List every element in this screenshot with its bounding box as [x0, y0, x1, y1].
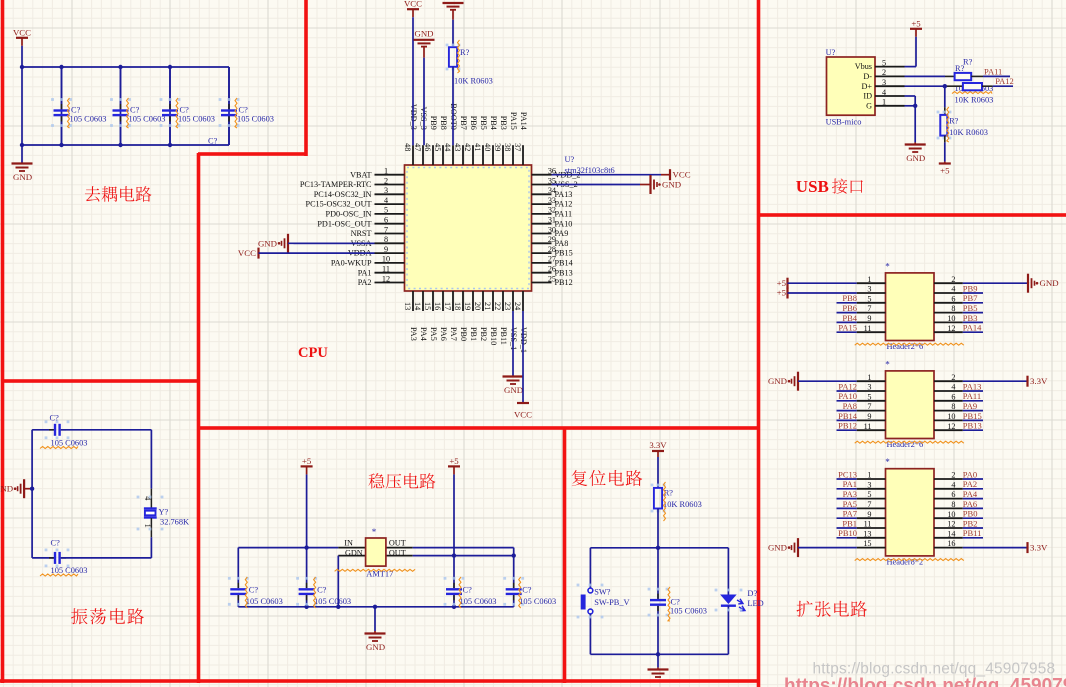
svg-text:C?: C?	[249, 586, 259, 595]
svg-text:10: 10	[947, 314, 955, 323]
svg-text:PC13-TAMPER-RTC: PC13-TAMPER-RTC	[300, 180, 372, 189]
svg-text:OUT: OUT	[389, 538, 406, 547]
svg-text:VCC: VCC	[404, 0, 422, 9]
svg-text:6: 6	[951, 490, 955, 499]
svg-text:9: 9	[867, 412, 871, 421]
svg-text:PA7: PA7	[843, 509, 857, 519]
svg-text:105 C0603: 105 C0603	[178, 115, 215, 124]
svg-text:13: 13	[403, 302, 412, 310]
svg-text:+5: +5	[911, 18, 921, 28]
svg-text:VCC: VCC	[673, 170, 691, 180]
svg-text:10K R0603: 10K R0603	[663, 500, 702, 509]
svg-text:11: 11	[382, 265, 390, 274]
svg-text:105 C0603: 105 C0603	[70, 115, 107, 124]
svg-text:PA8: PA8	[555, 239, 569, 248]
svg-text:GND: GND	[504, 385, 523, 395]
svg-text:C?: C?	[522, 586, 532, 595]
svg-text:PA12: PA12	[555, 200, 573, 209]
svg-text:C?: C?	[671, 598, 681, 607]
svg-text:32.768K: 32.768K	[160, 518, 189, 527]
svg-text:PC13: PC13	[838, 469, 857, 479]
svg-text:C?: C?	[180, 106, 190, 115]
svg-text:C?: C?	[239, 106, 249, 115]
svg-text:3.3V: 3.3V	[1030, 543, 1048, 553]
svg-text:PA4: PA4	[419, 327, 428, 341]
svg-text:PB11: PB11	[963, 528, 982, 538]
svg-text:5: 5	[384, 206, 388, 215]
svg-text:3: 3	[867, 285, 871, 294]
svg-text:PD1-OSC_OUT: PD1-OSC_OUT	[317, 219, 371, 228]
svg-text:C?: C?	[130, 106, 140, 115]
svg-text:2: 2	[951, 471, 955, 480]
svg-text:PB1: PB1	[842, 518, 857, 528]
svg-text:GND: GND	[0, 484, 13, 494]
svg-text:PB4: PB4	[489, 116, 498, 130]
svg-text:105 C0603: 105 C0603	[460, 597, 497, 606]
svg-text:NRST: NRST	[351, 229, 372, 238]
svg-text:16: 16	[433, 302, 442, 310]
svg-text:PA1: PA1	[843, 479, 857, 489]
svg-text:1: 1	[384, 167, 388, 176]
svg-text:PC15-OSC32_OUT: PC15-OSC32_OUT	[306, 200, 372, 209]
svg-text:13: 13	[863, 529, 871, 538]
svg-text:45: 45	[433, 143, 442, 151]
svg-text:5: 5	[882, 58, 886, 67]
svg-text:PB4: PB4	[842, 313, 857, 323]
svg-text:PA1: PA1	[358, 268, 372, 277]
svg-text:GND: GND	[258, 238, 277, 248]
svg-text:44: 44	[443, 143, 452, 151]
svg-text:PB6: PB6	[842, 303, 857, 313]
svg-text:+5: +5	[777, 288, 787, 298]
svg-text:6: 6	[951, 392, 955, 401]
svg-text:1: 1	[867, 373, 871, 382]
svg-text:Y?: Y?	[159, 508, 169, 517]
svg-text:PB3: PB3	[499, 116, 508, 130]
svg-text:IN: IN	[344, 538, 353, 547]
svg-text:D?: D?	[747, 589, 757, 598]
svg-text:11: 11	[864, 422, 872, 431]
svg-text:+5: +5	[449, 456, 459, 466]
svg-text:R?: R?	[460, 48, 470, 57]
svg-text:4: 4	[951, 383, 955, 392]
svg-text:PA11: PA11	[555, 210, 573, 219]
svg-text:11: 11	[864, 324, 872, 333]
svg-text:PA11: PA11	[984, 67, 1002, 77]
svg-text:105 C0603: 105 C0603	[670, 607, 707, 616]
svg-text:PC14-OSC32_IN: PC14-OSC32_IN	[314, 190, 372, 199]
svg-text:C?: C?	[50, 414, 60, 423]
svg-text:SW-PB_V: SW-PB_V	[594, 598, 629, 607]
svg-text:12: 12	[947, 520, 955, 529]
svg-text:3: 3	[384, 186, 388, 195]
svg-text:GND: GND	[768, 376, 787, 386]
svg-text:3: 3	[882, 78, 886, 87]
svg-text:PB12: PB12	[555, 278, 573, 287]
svg-text:10K R0603: 10K R0603	[955, 96, 994, 105]
svg-text:PA12: PA12	[995, 76, 1014, 86]
svg-text:OUT: OUT	[389, 548, 406, 557]
svg-text:PA0-WKUP: PA0-WKUP	[331, 259, 372, 268]
svg-text:PA8: PA8	[843, 401, 857, 411]
svg-text:stm32f103c8t6: stm32f103c8t6	[565, 166, 615, 175]
svg-text:PB9: PB9	[429, 116, 438, 130]
svg-text:PB6: PB6	[469, 116, 478, 130]
svg-text:PB2: PB2	[479, 327, 488, 341]
svg-text:10: 10	[382, 255, 390, 264]
svg-text:VBAT: VBAT	[350, 170, 371, 179]
svg-text:10K R0603: 10K R0603	[949, 128, 988, 137]
svg-text:PB13: PB13	[555, 268, 573, 277]
svg-text:14: 14	[413, 302, 422, 310]
svg-text:PA14: PA14	[963, 323, 982, 333]
svg-text:PB13: PB13	[963, 421, 982, 431]
svg-text:PA9: PA9	[963, 401, 977, 411]
svg-text:10: 10	[947, 510, 955, 519]
svg-text:GND: GND	[13, 172, 32, 182]
svg-text:2: 2	[951, 373, 955, 382]
svg-text:USB-mico: USB-mico	[826, 117, 862, 126]
svg-text:40: 40	[483, 143, 492, 151]
svg-text:3: 3	[867, 480, 871, 489]
svg-text:PB2: PB2	[963, 518, 978, 528]
svg-text:C?: C?	[51, 539, 61, 548]
svg-text:PA0: PA0	[963, 469, 977, 479]
svg-text:105 C0603: 105 C0603	[314, 597, 351, 606]
svg-text:23: 23	[503, 302, 512, 310]
svg-text:+5: +5	[302, 456, 312, 466]
svg-text:USB: USB	[796, 177, 829, 196]
svg-text:PB11: PB11	[499, 327, 508, 345]
svg-text:24: 24	[513, 302, 522, 310]
svg-text:GND: GND	[768, 543, 787, 553]
svg-text:15: 15	[423, 302, 432, 310]
svg-text:PA2: PA2	[963, 479, 977, 489]
svg-text:GDN: GDN	[345, 548, 363, 557]
svg-text:12: 12	[382, 274, 390, 283]
svg-text:18: 18	[453, 302, 462, 310]
svg-text:PB1: PB1	[469, 327, 478, 341]
svg-text:PB15: PB15	[963, 411, 982, 421]
svg-text:9: 9	[867, 314, 871, 323]
svg-text:*: *	[885, 261, 890, 271]
svg-text:VCC: VCC	[514, 410, 532, 420]
svg-text:GND: GND	[1040, 278, 1059, 288]
svg-text:*: *	[372, 527, 377, 537]
svg-text:7: 7	[867, 500, 871, 509]
svg-text:PB0: PB0	[963, 509, 978, 519]
svg-text:PA13: PA13	[963, 381, 982, 391]
svg-text:VCC: VCC	[13, 27, 31, 37]
svg-text:2: 2	[882, 68, 886, 77]
svg-text:PB14: PB14	[555, 259, 573, 268]
svg-text:5: 5	[867, 392, 871, 401]
svg-text:C?: C?	[71, 106, 81, 115]
svg-text:Vbus: Vbus	[855, 62, 872, 71]
svg-text:10K R0603: 10K R0603	[454, 77, 493, 86]
svg-text:105 C0603: 105 C0603	[246, 597, 283, 606]
svg-text:PA11: PA11	[963, 391, 981, 401]
svg-text:PB7: PB7	[459, 116, 468, 130]
svg-text:R?: R?	[963, 58, 973, 67]
svg-text:10: 10	[947, 412, 955, 421]
svg-text:7: 7	[867, 402, 871, 411]
svg-text:PA5: PA5	[429, 327, 438, 341]
svg-text:PA13: PA13	[555, 190, 573, 199]
svg-text:GND: GND	[906, 153, 925, 163]
svg-text:PB0: PB0	[459, 327, 468, 341]
svg-text:1: 1	[882, 98, 886, 107]
svg-text:5: 5	[867, 294, 871, 303]
svg-text:4: 4	[951, 480, 955, 489]
svg-text:PB12: PB12	[838, 421, 857, 431]
svg-text:SW?: SW?	[594, 588, 611, 597]
svg-text:19: 19	[463, 302, 472, 310]
svg-text:PB8: PB8	[842, 293, 857, 303]
svg-text:12: 12	[947, 324, 955, 333]
svg-text:VCC: VCC	[238, 248, 256, 258]
svg-text:C?: C?	[463, 586, 473, 595]
svg-text:PB10: PB10	[838, 528, 857, 538]
svg-text:PA15: PA15	[509, 112, 518, 130]
svg-text:+5: +5	[940, 166, 950, 176]
svg-text:2: 2	[951, 275, 955, 284]
svg-text:20: 20	[473, 302, 482, 310]
svg-text:6: 6	[384, 216, 388, 225]
svg-text:PB15: PB15	[555, 249, 573, 258]
svg-text:PA14: PA14	[519, 112, 528, 130]
svg-text:C?: C?	[317, 586, 327, 595]
svg-text:15: 15	[863, 539, 871, 548]
svg-text:PB3: PB3	[963, 313, 978, 323]
svg-text:PA10: PA10	[838, 391, 857, 401]
svg-text:6: 6	[951, 294, 955, 303]
svg-text:PB5: PB5	[963, 303, 978, 313]
svg-text:PA10: PA10	[555, 219, 573, 228]
svg-text:D+: D+	[861, 82, 872, 91]
svg-text:1: 1	[143, 524, 152, 528]
svg-text:8: 8	[951, 402, 955, 411]
svg-text:+5: +5	[777, 278, 787, 288]
svg-text:22: 22	[493, 302, 502, 310]
svg-text:3.3V: 3.3V	[1030, 376, 1048, 386]
svg-text:5: 5	[867, 490, 871, 499]
svg-text:PA6: PA6	[439, 327, 448, 341]
svg-text:PA9: PA9	[555, 229, 569, 238]
svg-text:3.3V: 3.3V	[649, 440, 667, 450]
svg-text:R?: R?	[949, 116, 959, 125]
svg-text:*: *	[885, 457, 890, 467]
svg-text:PA4: PA4	[963, 489, 978, 499]
svg-text:G: G	[866, 101, 872, 110]
svg-text:LED: LED	[747, 599, 763, 608]
svg-text:PB8: PB8	[439, 116, 448, 130]
svg-text:https://blog.csdn.net/qq_45907: https://blog.csdn.net/qq_45907958	[784, 676, 1066, 687]
svg-text:41: 41	[473, 143, 482, 151]
svg-text:PA15: PA15	[838, 323, 857, 333]
svg-text:PB7: PB7	[963, 293, 978, 303]
svg-text:7: 7	[867, 304, 871, 313]
svg-text:4: 4	[882, 88, 886, 97]
svg-text:2: 2	[384, 176, 388, 185]
svg-text:GND: GND	[366, 642, 385, 652]
svg-text:42: 42	[463, 143, 472, 151]
svg-text:PB14: PB14	[838, 411, 858, 421]
svg-text:PA3: PA3	[843, 489, 857, 499]
svg-text:PB5: PB5	[479, 116, 488, 130]
svg-text:9: 9	[384, 245, 388, 254]
svg-text:47: 47	[413, 143, 422, 151]
svg-text:PA3: PA3	[409, 327, 418, 341]
svg-text:21: 21	[483, 302, 492, 310]
svg-text:8: 8	[951, 304, 955, 313]
svg-text:105 C0603: 105 C0603	[237, 115, 274, 124]
svg-text:17: 17	[443, 302, 452, 310]
svg-text:PA2: PA2	[358, 278, 372, 287]
svg-text:39: 39	[493, 143, 502, 151]
svg-text:PA5: PA5	[843, 499, 857, 509]
svg-text:16: 16	[947, 539, 955, 548]
svg-text:37: 37	[513, 143, 522, 151]
svg-text:ID: ID	[863, 92, 872, 101]
svg-text:GND: GND	[414, 29, 433, 39]
svg-text:GND: GND	[662, 180, 681, 190]
svg-text:4: 4	[384, 196, 388, 205]
svg-text:4: 4	[951, 285, 955, 294]
svg-text:PA12: PA12	[838, 381, 857, 391]
svg-text:105 C0603: 105 C0603	[129, 115, 166, 124]
svg-text:*: *	[885, 359, 890, 369]
svg-text:PB9: PB9	[963, 283, 978, 293]
svg-text:8: 8	[384, 235, 388, 244]
svg-text:14: 14	[947, 529, 955, 538]
svg-text:9: 9	[867, 510, 871, 519]
svg-text:48: 48	[403, 143, 412, 151]
svg-text:CPU: CPU	[298, 345, 328, 361]
svg-text:U?: U?	[565, 155, 575, 164]
svg-text:7: 7	[384, 225, 388, 234]
svg-text:12: 12	[947, 422, 955, 431]
svg-text:43: 43	[453, 143, 462, 151]
svg-text:U?: U?	[826, 48, 836, 57]
svg-text:38: 38	[503, 143, 512, 151]
svg-text:1: 1	[867, 275, 871, 284]
svg-text:11: 11	[864, 520, 872, 529]
svg-text:PA7: PA7	[449, 327, 458, 341]
svg-text:3: 3	[867, 383, 871, 392]
svg-text:8: 8	[951, 500, 955, 509]
svg-text:PA6: PA6	[963, 499, 977, 509]
svg-text:R?: R?	[955, 64, 965, 73]
svg-text:1: 1	[867, 471, 871, 480]
svg-text:PB10: PB10	[489, 327, 498, 345]
svg-text:105 C0603: 105 C0603	[519, 597, 556, 606]
svg-text:D-: D-	[863, 72, 872, 81]
svg-text:C?: C?	[208, 137, 218, 146]
svg-text:PD0-OSC_IN: PD0-OSC_IN	[326, 210, 372, 219]
